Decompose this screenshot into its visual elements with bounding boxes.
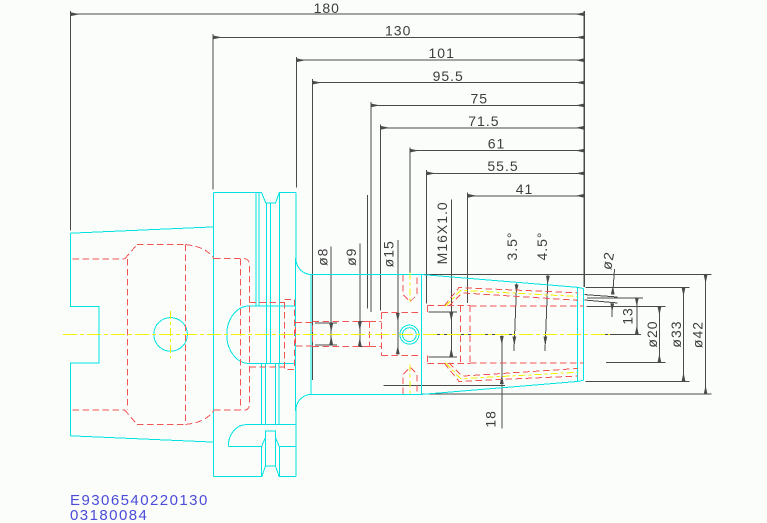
side lock hole circle on shank: [154, 318, 188, 352]
red box coupling: [285, 300, 295, 370]
collet outer taper bottom: [444, 363, 577, 381]
bottom cross hole: [403, 367, 417, 394]
dimension 18: [501, 335, 503, 428]
angle dim 4.5: [545, 275, 548, 351]
svg-text:ø33: ø33: [668, 320, 684, 347]
internal vertical at flange/body junction: [294, 258, 296, 411]
taper bottom edge: [70, 436, 213, 442]
flange internal verticals bottom: [261, 363, 263, 424]
svg-text:130: 130: [385, 22, 411, 38]
dimension dia20: [658, 307, 660, 363]
svg-text:75: 75: [471, 90, 489, 106]
svg-text:ø8: ø8: [315, 248, 331, 266]
coolant cross hole circles: [400, 325, 419, 344]
svg-text:55.5: 55.5: [487, 158, 518, 174]
collet taper centerline bottom: [446, 363, 578, 379]
collet outer taper top: [444, 288, 577, 306]
flange right face top + fillet + body top edge: [296, 192, 422, 274]
flange right face bottom + fillet + body bottom edge: [296, 394, 422, 476]
svg-text:95.5: 95.5: [433, 68, 464, 84]
dimension dia42: [705, 275, 707, 395]
dimension 61: [410, 150, 585, 152]
dimension dia33: [683, 288, 685, 382]
shank hole vertical centerline: [170, 311, 172, 358]
leader M16X1.0: [450, 199, 452, 356]
svg-text:4.5°: 4.5°: [534, 231, 550, 260]
svg-text:ø9: ø9: [343, 248, 359, 266]
flange bottom edge with V-groove: [214, 466, 297, 477]
bottom slot pillar: [266, 431, 276, 466]
dimension 101: [297, 59, 585, 61]
svg-text:3.5°: 3.5°: [504, 231, 520, 260]
nose cone bottom edge: [422, 380, 584, 394]
leader dia15: [397, 240, 399, 355]
dimension 13: [636, 298, 638, 334]
internal cavity top/bottom: [137, 244, 186, 246]
leader dia9: [359, 244, 361, 347]
dimension 180: [71, 13, 585, 15]
bottom cross hole centerline: [409, 365, 411, 397]
red box stud: [295, 323, 312, 346]
body end face at cone start: [421, 275, 423, 395]
leader dia8: [330, 246, 332, 345]
step to dia15: [369, 322, 371, 347]
drawbar collar lines: [249, 301, 284, 303]
bottom undercut horizontals: [228, 445, 261, 447]
flange internal verticals top: [255, 192, 257, 306]
collet bore dia20 bottom: [470, 362, 584, 364]
flange left face: [213, 192, 215, 476]
dimension 41: [468, 195, 585, 197]
svg-text:61: 61: [488, 135, 506, 151]
nose cone top edge: [422, 275, 584, 289]
dia9 bore: [312, 321, 369, 323]
slot side walls: [260, 446, 262, 476]
svg-text:13: 13: [619, 307, 635, 325]
extension line right (nose face, common end of length dims): [583, 11, 585, 287]
svg-text:101: 101: [429, 45, 455, 61]
main centerline: [63, 334, 610, 336]
collet bore dia20 top: [470, 305, 584, 307]
svg-text:71.5: 71.5: [468, 113, 499, 129]
svg-text:18: 18: [483, 410, 499, 428]
collet taper centerline top: [446, 290, 578, 306]
top cross hole: [403, 275, 417, 302]
shank back bore: [73, 258, 125, 260]
svg-text:ø2: ø2: [598, 250, 617, 271]
M16 thread box: [428, 305, 470, 307]
svg-text:ø42: ø42: [689, 321, 705, 348]
internal capsule (drawbar head): [227, 306, 296, 363]
svg-text:180: 180: [314, 0, 340, 16]
top cross hole centerline: [409, 273, 411, 305]
angle dim 3.5: [514, 284, 517, 351]
cavity shoulder curves: [186, 245, 214, 259]
internal vertical at fillet tangent: [310, 275, 312, 394]
leader dia2: [613, 269, 615, 295]
dimension 95.5: [313, 82, 585, 84]
cavity end wall: [185, 245, 187, 425]
nose face: [583, 289, 585, 381]
svg-text:ø20: ø20: [644, 320, 660, 347]
slot upper chamfers: [262, 437, 266, 446]
dimension 75: [371, 104, 584, 106]
svg-text:M16X1.0: M16X1.0: [434, 201, 450, 264]
dimension 130: [213, 36, 584, 38]
svg-text:41: 41: [516, 181, 534, 197]
drawbar shaft walls: [239, 259, 241, 410]
flange top edge with V-groove: [214, 192, 297, 203]
bore chamfer diagonals: [125, 245, 137, 259]
HSK shank back face: [70, 233, 99, 436]
dimension 55.5: [427, 172, 585, 174]
bottom undercut ledge: [228, 425, 295, 447]
svg-text:ø15: ø15: [381, 240, 397, 267]
svg-text:03180084: 03180084: [70, 507, 148, 523]
dimension 71.5: [381, 127, 585, 129]
taper top edge: [70, 227, 213, 233]
dia15 bore box: [381, 313, 383, 356]
